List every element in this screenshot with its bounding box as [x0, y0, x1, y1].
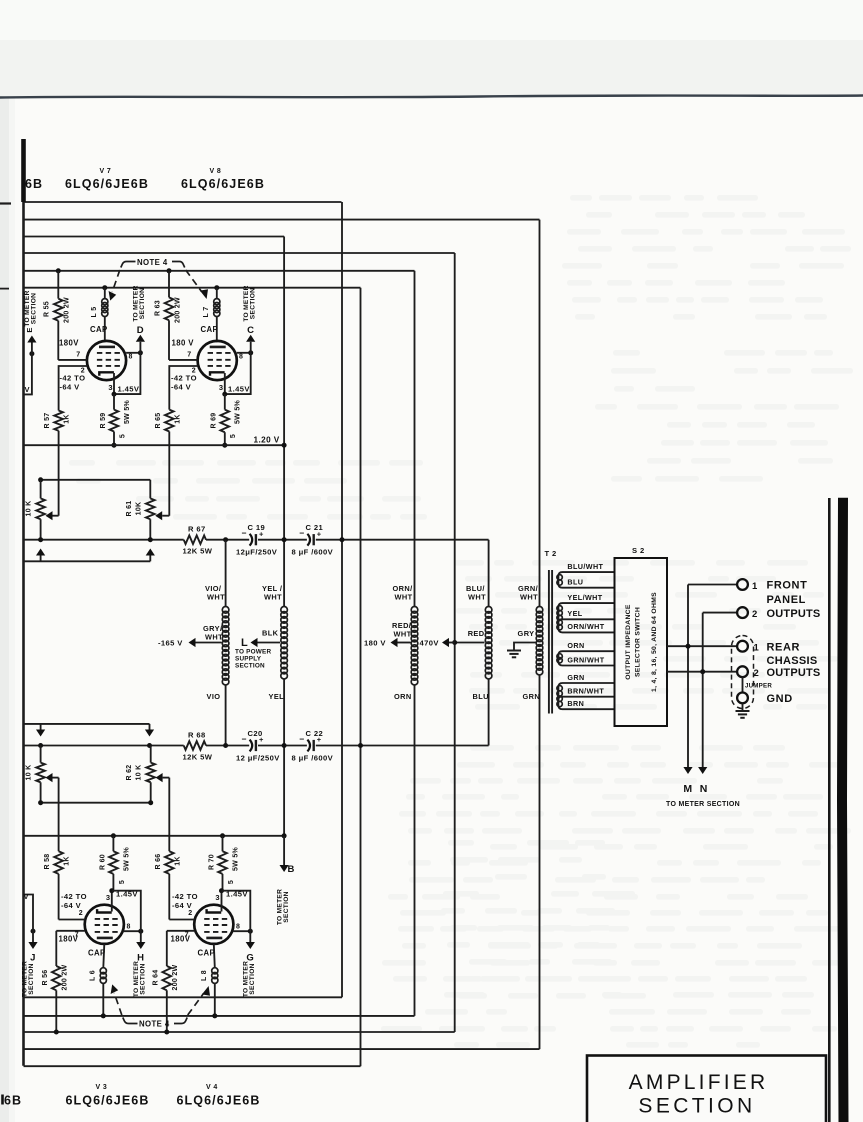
- wire V8 pin3 cathode lead: [224, 373, 226, 394]
- svg-text:-42 TO: -42 TO: [60, 374, 86, 383]
- svg-text:C 19: C 19: [248, 523, 266, 532]
- svg-text:OUTPUTS: OUTPUTS: [767, 608, 821, 620]
- svg-text:ORN/WHT: ORN/WHT: [567, 622, 604, 631]
- svg-text:8: 8: [239, 354, 243, 361]
- resistor R70: [222, 836, 224, 852]
- svg-text:10 K: 10 K: [26, 501, 33, 517]
- svg-text:R 68: R 68: [188, 731, 206, 740]
- dark horizontal scan line at page top: [0, 96, 863, 98]
- capacitor C22: [307, 740, 310, 752]
- svg-text:8 μF /600V: 8 μF /600V: [292, 754, 334, 763]
- svg-text:−: −: [242, 528, 247, 538]
- svg-text:N: N: [700, 783, 708, 795]
- svg-text:-64 V: -64 V: [61, 901, 82, 910]
- wire V3 pin3 cathode lead: [111, 891, 113, 912]
- svg-text:-165 V: -165 V: [158, 639, 183, 648]
- svg-text:YEL: YEL: [567, 609, 582, 618]
- meter tap H: [140, 931, 142, 942]
- inductor L6: [103, 944, 104, 968]
- transformer T2 secondary winding groups: [558, 572, 614, 588]
- svg-text:7: 7: [185, 932, 189, 939]
- svg-text:2: 2: [188, 910, 192, 917]
- wire bus line to x=540 (bottom): [24, 1048, 540, 1050]
- svg-text:GRY: GRY: [518, 629, 535, 638]
- feedback arrows line lower: [24, 723, 150, 725]
- schematic left border: [22, 139, 25, 1066]
- svg-text:BLU: BLU: [567, 578, 583, 587]
- wire V3 pin8 node: [124, 930, 141, 932]
- svg-text:L 6: L 6: [90, 970, 97, 981]
- svg-text:E: E: [25, 327, 34, 332]
- wire V7 pin7: [58, 359, 87, 361]
- svg-text:SECTION: SECTION: [638, 1094, 755, 1117]
- svg-text:WHT: WHT: [207, 593, 225, 602]
- svg-text:3: 3: [215, 893, 220, 902]
- resistor R60: [112, 836, 114, 852]
- svg-text:7: 7: [76, 352, 80, 359]
- inductor L5: [104, 288, 106, 299]
- pot (10K) left upper: [40, 480, 42, 499]
- svg-text:3: 3: [106, 893, 111, 902]
- svg-text:1.45V: 1.45V: [228, 385, 250, 394]
- svg-text:SECTION: SECTION: [139, 963, 146, 994]
- svg-text:5: 5: [230, 434, 237, 438]
- svg-text:WHT: WHT: [395, 593, 413, 602]
- svg-text:R 58: R 58: [44, 854, 51, 870]
- wire vertical x=454 (470V node): [454, 253, 456, 1032]
- book gutter thin line: [828, 498, 831, 1122]
- svg-text:5: 5: [120, 434, 127, 438]
- wire V4 pin2 grid: [169, 919, 194, 921]
- svg-text:−: −: [299, 528, 304, 538]
- svg-text:-64 V: -64 V: [60, 383, 81, 392]
- jumper wire: [742, 677, 744, 692]
- svg-text:V 3: V 3: [96, 1084, 108, 1091]
- svg-text:1K: 1K: [64, 414, 71, 424]
- svg-text:180 V: 180 V: [172, 339, 195, 348]
- wire bus line to x=454 (top): [24, 252, 455, 254]
- svg-text:VIO: VIO: [207, 692, 221, 701]
- svg-text:D: D: [137, 325, 144, 336]
- svg-text:BRN: BRN: [567, 699, 584, 708]
- svg-text:C20: C20: [248, 729, 263, 738]
- pot R62 wiper to R66: [163, 777, 170, 779]
- wire vertical x=540 upper: [539, 220, 541, 607]
- resistor R67: [184, 535, 206, 544]
- wire V4 pin3 cathode lead: [221, 891, 223, 912]
- svg-text:-42 TO: -42 TO: [172, 892, 198, 901]
- wire V8 pin2 to R65: [169, 366, 198, 410]
- resistor R63: [168, 271, 170, 298]
- svg-text:12 μF/250V: 12 μF/250V: [236, 754, 280, 763]
- meter tap J at far left: [31, 929, 36, 934]
- svg-text:-42 TO: -42 TO: [61, 892, 87, 901]
- svg-text:WHT: WHT: [520, 593, 538, 602]
- svg-text:REAR: REAR: [767, 641, 801, 653]
- wire front panel output 1: [688, 584, 737, 586]
- wire V3 pin2 grid: [59, 919, 85, 921]
- pot left lower wiper to R58: [53, 777, 59, 779]
- svg-text:CHASSIS: CHASSIS: [767, 655, 818, 667]
- svg-text:6LQ6/6JE6B: 6LQ6/6JE6B: [66, 1094, 150, 1108]
- svg-text:CAP: CAP: [198, 949, 216, 958]
- wire V4 pin8 node: [233, 930, 250, 932]
- svg-text:R 59: R 59: [100, 413, 107, 429]
- resistor R69: [224, 394, 226, 410]
- wire bus line to x=540 (top): [24, 219, 540, 221]
- svg-text:5: 5: [228, 880, 235, 884]
- wire V7 pin3 cathode lead: [113, 373, 115, 394]
- ground symbol below GND: [742, 703, 744, 711]
- meter tap B: [283, 836, 285, 865]
- svg-text:5: 5: [119, 880, 126, 884]
- wire bus line to x=414 (bottom): [24, 1015, 415, 1017]
- wire V7 pin2 to R57: [59, 366, 88, 411]
- svg-text:12μF/250V: 12μF/250V: [236, 548, 278, 557]
- svg-text:R 70: R 70: [209, 854, 216, 870]
- resistor R65: [165, 410, 174, 432]
- svg-text:J: J: [30, 953, 36, 964]
- resistor R59: [113, 394, 115, 410]
- wire V hook at left border: [25, 354, 32, 395]
- svg-text:WHT: WHT: [205, 633, 223, 642]
- terminal front panel 2: [737, 607, 748, 618]
- wire V8 pin8 node: [237, 352, 251, 354]
- wire vertical x=540 lower: [539, 675, 541, 1049]
- svg-text:GRN: GRN: [523, 692, 541, 701]
- capacitor C19: [250, 534, 253, 546]
- wire bus line to x=360 (bottom): [24, 1065, 361, 1067]
- wire 1.20V cathode line: [24, 444, 285, 446]
- svg-text:WHT: WHT: [394, 630, 412, 639]
- top page-edge grey band: [0, 0, 863, 96]
- wire V7 pin8 to cathode loop: [114, 353, 140, 394]
- svg-text:R 62: R 62: [126, 765, 133, 781]
- svg-text:YEL/WHT: YEL/WHT: [567, 593, 602, 602]
- node dot L7 top: [214, 285, 219, 290]
- svg-text:R 57: R 57: [44, 413, 51, 429]
- svg-text:12K 5W: 12K 5W: [183, 753, 213, 762]
- wire V7 pin8 node: [126, 352, 140, 354]
- svg-text:ORN: ORN: [567, 641, 584, 650]
- wire pot top link line: [41, 479, 151, 481]
- capacitor C21: [307, 534, 310, 546]
- svg-text:10K: 10K: [136, 502, 143, 516]
- amplifier section title box: [587, 1056, 826, 1122]
- svg-text:200 2W: 200 2W: [175, 297, 182, 323]
- winding primary V10 (T2 driver): [222, 607, 229, 614]
- svg-text:1.20 V: 1.20 V: [254, 436, 280, 445]
- wire screen supply line upper: [24, 539, 184, 541]
- svg-text:R 55: R 55: [44, 301, 51, 317]
- terminal front panel 1: [737, 579, 748, 590]
- svg-text:1K: 1K: [175, 414, 182, 424]
- svg-text:BLK: BLK: [262, 629, 279, 638]
- svg-text:YEL: YEL: [269, 692, 285, 701]
- svg-text:GND: GND: [767, 693, 793, 705]
- wire front panel output 2: [703, 612, 737, 614]
- svg-text:200 2W: 200 2W: [64, 297, 71, 323]
- svg-text:6B: 6B: [4, 1094, 22, 1108]
- svg-text:2: 2: [752, 609, 758, 620]
- svg-text:-64 V: -64 V: [171, 383, 192, 392]
- svg-text:12K 5W: 12K 5W: [183, 547, 213, 556]
- svg-text:SECTION: SECTION: [249, 288, 256, 319]
- wire vertical x=414 upper: [414, 271, 416, 607]
- svg-text:−: −: [299, 734, 304, 744]
- svg-text:6LQ6/6JE6B: 6LQ6/6JE6B: [177, 1094, 261, 1108]
- resistor R58: [58, 850, 60, 852]
- svg-text:6LQ6/6JE6B: 6LQ6/6JE6B: [181, 177, 265, 191]
- svg-text:RED: RED: [468, 629, 485, 638]
- winding primary BLU: [485, 607, 492, 614]
- terminal rear chassis 2: [737, 666, 748, 677]
- svg-text:L: L: [241, 637, 248, 649]
- wire bus line to x=284 (top): [24, 236, 285, 238]
- svg-text:CAP: CAP: [201, 325, 219, 334]
- resistor R66: [165, 851, 174, 874]
- inductor L7: [216, 288, 218, 299]
- svg-text:1: 1: [754, 643, 760, 654]
- faint print-through from reverse page: [69, 195, 853, 1048]
- svg-text:L 5: L 5: [91, 307, 98, 318]
- svg-text:10 K: 10 K: [26, 765, 33, 781]
- svg-text:2: 2: [754, 668, 760, 679]
- svg-text:M: M: [683, 783, 692, 795]
- svg-text:BRN/WHT: BRN/WHT: [567, 687, 604, 696]
- node dots on lower screen line: [38, 743, 43, 748]
- resistor R57: [54, 411, 63, 431]
- wire pot bottom link line: [41, 802, 151, 804]
- svg-text:T 2: T 2: [545, 549, 557, 558]
- node dots on screen line: [38, 537, 43, 542]
- svg-text:L 8: L 8: [201, 970, 208, 981]
- meter tap G: [249, 931, 251, 942]
- svg-text:5W 5%: 5W 5%: [235, 399, 242, 424]
- winding primary ORN: [411, 607, 418, 614]
- svg-text:V: V: [24, 892, 29, 901]
- svg-text:1, 4, 8, 16, 50, AND 64 OHMS: 1, 4, 8, 16, 50, AND 64 OHMS: [651, 592, 658, 692]
- switch S2 output impedance selector: [615, 558, 668, 726]
- svg-text:5W 5%: 5W 5%: [124, 399, 131, 424]
- svg-text:1: 1: [752, 581, 758, 592]
- terminal rear chassis 1: [737, 641, 748, 652]
- pot R61: [149, 480, 151, 499]
- pot left upper wiper to R57: [53, 515, 59, 517]
- svg-text:-64 V: -64 V: [172, 901, 193, 910]
- svg-text:C 21: C 21: [306, 523, 324, 532]
- svg-text:S 2: S 2: [632, 546, 645, 555]
- svg-text:5W 5%: 5W 5%: [124, 846, 131, 871]
- resistor R68: [184, 741, 206, 750]
- svg-text:180V: 180V: [59, 339, 79, 348]
- svg-text:6B: 6B: [25, 177, 43, 191]
- svg-text:SECTION: SECTION: [283, 891, 290, 922]
- svg-text:SECTION: SECTION: [235, 663, 265, 670]
- winding primary YEL: [281, 607, 288, 614]
- meter tap N: [702, 766, 704, 768]
- svg-text:3: 3: [108, 383, 113, 392]
- meter tap C: [250, 342, 252, 353]
- svg-text:5W 5%: 5W 5%: [233, 846, 240, 871]
- svg-text:BLU: BLU: [473, 692, 489, 701]
- svg-text:OUTPUTS: OUTPUTS: [767, 667, 821, 679]
- svg-text:AMPLIFIER: AMPLIFIER: [629, 1071, 769, 1094]
- inductor L8: [214, 944, 215, 968]
- wire bus line to x=414 (top): [24, 270, 415, 272]
- svg-text:8: 8: [236, 924, 240, 931]
- tube V3: [85, 905, 124, 944]
- wire bus line to x=342 (bottom): [24, 996, 343, 998]
- left page-cut wire stubs: [0, 202, 11, 204]
- svg-text:10 K: 10 K: [136, 765, 143, 781]
- tube V7: [87, 341, 126, 380]
- svg-text:SECTION: SECTION: [139, 288, 146, 319]
- feedback arrows line upper: [24, 560, 151, 562]
- svg-text:JUMPER: JUMPER: [745, 683, 772, 690]
- svg-text:V: V: [25, 385, 30, 394]
- svg-text:BLU/WHT: BLU/WHT: [567, 562, 603, 571]
- wire vertical x=360 (plate loop): [360, 288, 362, 1066]
- svg-text:C: C: [247, 325, 254, 336]
- svg-text:SECTION: SECTION: [28, 963, 35, 994]
- svg-text:B: B: [288, 864, 295, 875]
- book gutter black bar: [837, 498, 849, 1122]
- svg-text:OUTPUT IMPEDANCE: OUTPUT IMPEDANCE: [625, 604, 632, 680]
- resistor R64: [163, 966, 172, 990]
- wire vertical x=342: [341, 202, 343, 997]
- svg-text:R 66: R 66: [155, 854, 162, 870]
- svg-text:R 56: R 56: [42, 970, 49, 986]
- svg-text:GRN/WHT: GRN/WHT: [567, 655, 604, 664]
- svg-text:SECTION: SECTION: [249, 963, 256, 994]
- svg-text:L 7: L 7: [203, 307, 210, 318]
- wire V3 pin7: [56, 930, 84, 932]
- pot R61 wiper to R65: [162, 515, 169, 517]
- svg-text:1K: 1K: [175, 856, 182, 866]
- wire S2 to rear chassis output 2: [667, 671, 737, 673]
- node dots bottom plate loop: [101, 1013, 106, 1018]
- node dot R63 top: [167, 268, 172, 273]
- svg-text:-42 TO: -42 TO: [171, 374, 197, 383]
- svg-text:R 63: R 63: [155, 300, 162, 316]
- svg-text:WHT: WHT: [264, 593, 282, 602]
- wire meter B line: [24, 835, 285, 837]
- tube V8: [198, 341, 237, 380]
- svg-text:R 67: R 67: [188, 525, 206, 534]
- svg-text:200 2W: 200 2W: [172, 964, 179, 990]
- svg-text:8: 8: [129, 354, 133, 361]
- svg-text:FRONT: FRONT: [767, 580, 808, 592]
- svg-text:2: 2: [79, 910, 83, 917]
- svg-text:C 22: C 22: [306, 729, 324, 738]
- svg-text:CAP: CAP: [90, 325, 108, 334]
- pot (10K) left lower: [40, 746, 42, 763]
- svg-text:6LQ6/6JE6B: 6LQ6/6JE6B: [65, 177, 149, 191]
- resistor R56: [52, 966, 61, 990]
- meter tap D: [139, 342, 141, 353]
- svg-text:SUPPLY: SUPPLY: [235, 656, 262, 663]
- resistor R55: [57, 271, 59, 299]
- meter tap E at far left: [29, 351, 34, 356]
- svg-text:TO METER SECTION: TO METER SECTION: [666, 801, 740, 808]
- node dots bottom screen loop: [54, 1030, 59, 1035]
- svg-text:V 4: V 4: [206, 1084, 218, 1091]
- capacitor C20: [250, 740, 253, 752]
- wire screen supply line lower: [24, 745, 184, 747]
- svg-text:TO POWER: TO POWER: [235, 649, 271, 656]
- meter tap M: [687, 766, 689, 768]
- svg-text:GRN: GRN: [567, 673, 584, 682]
- svg-text:R 69: R 69: [211, 413, 218, 429]
- svg-text:R 61: R 61: [126, 501, 133, 517]
- wire vertical x=414 lower: [414, 685, 416, 1016]
- svg-text:NOTE 4: NOTE 4: [139, 1020, 170, 1029]
- wire vertical x=284 (screen bus): [283, 237, 285, 607]
- node dot R55 top: [56, 268, 61, 273]
- wire S2 to rear chassis output 1: [667, 645, 737, 647]
- wire V3 pin8 loop: [112, 891, 141, 932]
- svg-text:8 μF /600V: 8 μF /600V: [292, 548, 334, 557]
- svg-text:WHT: WHT: [468, 593, 486, 602]
- svg-text:NOTE 4: NOTE 4: [137, 258, 168, 267]
- left page-edge shading: [0, 96, 9, 1122]
- svg-text:470V: 470V: [420, 639, 440, 648]
- svg-text:3: 3: [219, 383, 224, 392]
- wire V8 pin8 to cathode loop: [225, 353, 251, 394]
- wire V8 pin7: [169, 359, 198, 361]
- svg-text:1.45V: 1.45V: [118, 385, 140, 394]
- wire V4 pin8 loop: [222, 891, 251, 932]
- svg-text:PANEL: PANEL: [767, 594, 806, 606]
- svg-text:1K: 1K: [64, 856, 71, 866]
- svg-text:V 8: V 8: [210, 168, 222, 175]
- svg-text:R 60: R 60: [100, 854, 107, 870]
- wire bus line to x=454 (bottom): [24, 1031, 455, 1033]
- svg-text:7: 7: [75, 932, 79, 939]
- svg-text:SELECTOR SWITCH: SELECTOR SWITCH: [635, 607, 642, 677]
- svg-text:SECTION: SECTION: [30, 293, 37, 324]
- svg-text:180 V: 180 V: [364, 639, 386, 648]
- node dot L5 top: [102, 285, 107, 290]
- winding primary GRN: [536, 607, 543, 614]
- wire V4 pin7: [167, 930, 194, 932]
- pot R62: [150, 746, 152, 763]
- svg-text:R 64: R 64: [153, 970, 160, 986]
- svg-text:V 7: V 7: [100, 168, 112, 175]
- terminal GND: [737, 693, 748, 704]
- svg-text:200 2W: 200 2W: [62, 964, 69, 990]
- svg-text:ORN: ORN: [394, 692, 412, 701]
- wire bus line to node at x=342 (top): [24, 201, 342, 203]
- dashed outline rear outputs: [732, 636, 754, 709]
- tube V4: [194, 905, 233, 944]
- svg-text:7: 7: [187, 352, 191, 359]
- wire plate bus line (top): [24, 287, 361, 289]
- svg-text:−: −: [242, 734, 247, 744]
- svg-text:8: 8: [127, 924, 131, 931]
- wire corner down to winding 4 top: [488, 540, 490, 607]
- svg-text:R 65: R 65: [155, 413, 162, 429]
